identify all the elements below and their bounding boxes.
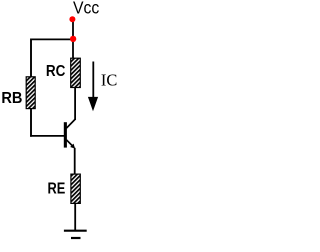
svg-text:Vcc: Vcc [73,0,100,18]
svg-text:RE: RE [48,180,66,197]
svg-text:RB: RB [1,90,22,107]
svg-text:IC: IC [101,71,117,90]
svg-text:RC: RC [46,63,66,80]
